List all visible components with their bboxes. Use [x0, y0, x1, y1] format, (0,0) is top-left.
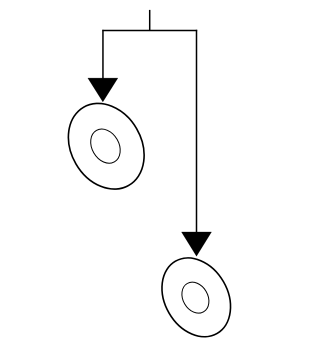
node: left donut inner ellipse	[85, 124, 126, 169]
arrowhead: left arrow	[88, 78, 118, 102]
node: right donut outer ellipse	[148, 246, 244, 347]
arrowhead: right arrow	[182, 232, 212, 256]
wire: left vertical drop	[102, 30, 104, 79]
node: left donut outer ellipse	[53, 90, 159, 203]
node: right donut inner ellipse	[176, 277, 214, 318]
wire: horizontal branch bar	[102, 30, 197, 32]
wire: top vertical stub	[149, 10, 151, 31]
wire: right vertical drop	[196, 30, 198, 233]
